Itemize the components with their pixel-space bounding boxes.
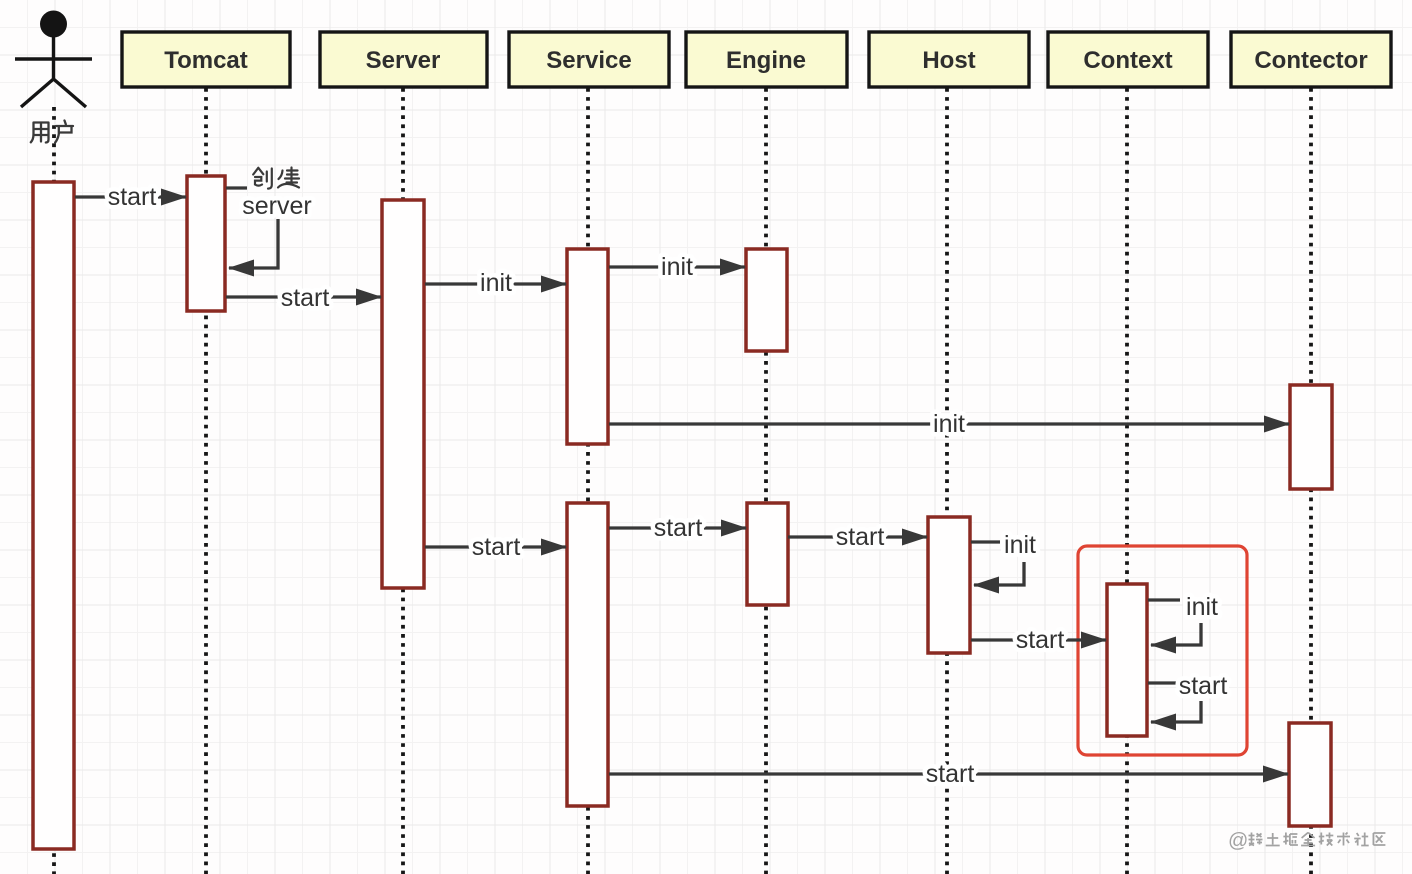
message start Host to Context — [971, 638, 1106, 641]
message self 创建 server at Tomcat: out line — [226, 186, 247, 189]
svg-text:Context: Context — [1083, 47, 1172, 74]
svg-text:Tomcat: Tomcat — [164, 47, 248, 74]
activation Host — [928, 517, 970, 653]
activation Engine 1 — [746, 249, 787, 351]
actor 用户 stick figure — [15, 11, 92, 108]
lifeline Service — [586, 88, 590, 874]
activation Server — [382, 200, 424, 588]
svg-text:Server: Server — [366, 47, 441, 74]
svg-text:start: start — [836, 523, 885, 551]
header box Engine — [686, 32, 847, 87]
message init Service to Engine — [609, 265, 745, 268]
header box Host — [869, 32, 1029, 87]
header box Service — [509, 32, 669, 87]
actor label 用户 (hand-drawn glyphs) — [31, 121, 73, 143]
activation 用户 — [33, 182, 74, 849]
svg-text:@: @ — [1228, 830, 1248, 852]
svg-text:start: start — [472, 533, 521, 561]
message self init at Host: out line — [971, 540, 1000, 543]
svg-text:init: init — [933, 410, 965, 438]
lifeline Context — [1125, 88, 1129, 874]
lifeline Tomcat — [204, 88, 208, 874]
svg-text:start: start — [1179, 672, 1228, 700]
message start Server to Service — [425, 545, 566, 548]
header box Context — [1048, 32, 1208, 87]
lifeline Server — [401, 88, 405, 874]
message init Service to Contector — [609, 422, 1289, 425]
svg-text:start: start — [1016, 626, 1065, 654]
activation Engine 2 — [747, 503, 788, 605]
header box Server — [320, 32, 487, 87]
glyph 户 — [55, 121, 73, 143]
header box Tomcat — [122, 32, 290, 87]
highlight red rectangle around Context activation — [1078, 546, 1247, 755]
activation Contector 1 — [1290, 385, 1332, 489]
message self start at Context: return — [1151, 701, 1201, 722]
svg-text:Service: Service — [546, 47, 631, 74]
lifeline Engine — [764, 88, 768, 874]
lifeline Host — [945, 88, 949, 874]
watermark @稀土掘金技术社区 — [1228, 830, 1385, 852]
svg-text:start: start — [654, 514, 703, 542]
message start 用户 to Tomcat — [75, 195, 186, 198]
svg-text:Contector: Contector — [1254, 47, 1367, 74]
svg-text:server: server — [242, 192, 311, 220]
label 创建 (hand-drawn glyphs, self message Tomcat) — [253, 168, 299, 189]
glyph 用 — [31, 123, 49, 143]
message self init at Context: out line — [1148, 598, 1180, 601]
header box Contector — [1231, 32, 1391, 87]
message self start at Context: out line — [1148, 681, 1177, 684]
svg-text:init: init — [661, 253, 693, 281]
message self 创建 server at Tomcat: return — [229, 219, 278, 268]
activation Service 2 — [567, 503, 608, 806]
activation Service 1 — [567, 249, 608, 444]
activation Tomcat — [187, 176, 225, 311]
svg-text:start: start — [108, 183, 157, 211]
glyph 建 — [278, 168, 299, 188]
glyph 创 — [253, 168, 272, 189]
svg-text:start: start — [926, 760, 975, 788]
message init Server to Service — [425, 282, 566, 285]
message start Service to Engine — [609, 526, 746, 529]
svg-text:init: init — [1004, 531, 1036, 559]
message start Service to Contector — [609, 772, 1288, 775]
lifeline Contector — [1309, 88, 1313, 874]
message start Tomcat to Server — [226, 295, 381, 298]
svg-text:init: init — [1186, 593, 1218, 621]
lifeline 用户 — [52, 107, 56, 874]
svg-text:Engine: Engine — [726, 47, 806, 74]
message self init at Context: return — [1151, 623, 1201, 645]
svg-text:init: init — [480, 269, 512, 297]
activation Context — [1107, 584, 1147, 736]
message self init at Host: return — [974, 562, 1024, 585]
activation Contector 2 — [1289, 723, 1331, 826]
svg-text:Host: Host — [922, 47, 975, 74]
svg-text:start: start — [281, 284, 330, 312]
message start Engine to Host — [788, 535, 927, 538]
